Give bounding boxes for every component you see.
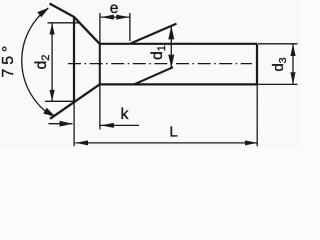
arrowhead: d2 top [50,23,55,34]
k dimension line left part [49,123,73,125]
centerline axis dash-dot [68,63,252,65]
arrowhead: L left (points left) [76,140,89,145]
L dimension line [75,142,257,144]
arrowhead: d3 bottom [290,72,295,84]
75-deg angle arc [22,8,51,116]
arrowhead: d1 bottom [168,55,174,68]
e dimension line [101,16,130,18]
k left extension line (head face extended) [73,102,75,146]
e right extension line [129,13,131,41]
wire: shank top edge [100,43,257,45]
arrowhead: e left [101,15,114,20]
d2 top extension line [48,22,80,24]
faint scan noise [0,0,1,1]
wire: bottom cone edge with 75-deg extension [50,84,100,118]
arrowhead: L right (points right) [245,140,258,145]
arrowhead: arc top (points up-right along arc tangent) [37,8,49,18]
d3 dimension line [292,44,294,85]
arrowhead: k left (points right) [60,121,73,127]
d1 oblique extension bottom [135,67,174,84]
e left extension line (upper part of junction line) [99,13,101,44]
arrowhead: arc bottom (points down-right along arc tangent) [43,108,55,117]
d3 bottom extension line [258,83,298,85]
wire: top cone edge with 75-deg extension (bend at face corner) [50,4,100,44]
arrowhead: k right (points left) [100,123,114,128]
d1 oblique extension top [131,24,177,44]
arrowhead: d2 bottom [50,90,55,101]
arrowhead: d3 top [290,44,295,56]
d1 dimension line [170,26,172,68]
d3 top extension line [258,43,298,45]
wire: shank bottom edge [100,83,257,85]
k dimension line right part [100,124,139,126]
wire: shank right end face [256,44,258,85]
L right extension line [256,84,258,146]
d2 bottom extension line [45,100,75,102]
wire: head-shank junction vertical [99,44,101,85]
arrowhead: d1 top [168,26,174,40]
k/L shared extension line below junction [99,84,101,129]
wire: head left face d2 [73,17,75,102]
d2 dimension line [51,23,53,101]
arrowhead: e right [116,15,129,20]
